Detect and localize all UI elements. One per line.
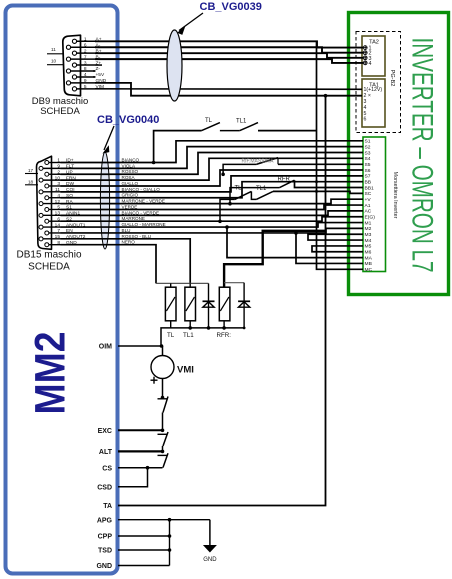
svg-text:TSD: TSD <box>98 548 112 555</box>
wire RIF.MASSIMA feed <box>221 164 256 176</box>
svg-text:14: 14 <box>55 222 61 228</box>
svg-text:TL: TL <box>205 118 213 124</box>
wire BIANCO to S1 <box>61 141 364 163</box>
switch TL1 (top) <box>236 119 258 131</box>
svg-text:CSD: CSD <box>97 485 112 492</box>
wire RFR coil feed (thick) <box>224 231 325 287</box>
wire A+ to TA2 pin 1 <box>95 41 363 47</box>
svg-text:3: 3 <box>57 181 60 187</box>
svg-text:MARRONE: MARRONE <box>122 216 145 221</box>
svg-text:APG: APG <box>97 518 113 525</box>
wire TL TL1 contacts feed <box>218 199 235 223</box>
svg-text:MARRONE - VERDE: MARRONE - VERDE <box>122 199 165 204</box>
svg-text:M4: M4 <box>365 238 372 244</box>
wire +5V stub <box>93 76 96 78</box>
svg-text:TL1: TL1 <box>256 186 267 192</box>
svg-text:2: 2 <box>84 48 87 54</box>
coil top bus RFR to D2 <box>224 282 244 284</box>
cable CB_VG0040 <box>97 114 159 249</box>
wire VIM to TA1 pin 1 <box>95 88 362 90</box>
switch TL (contact) <box>235 186 252 200</box>
wire ROSSO to S3 <box>61 152 364 174</box>
svg-text:TL: TL <box>235 186 243 192</box>
svg-text:VERDE: VERDE <box>122 204 138 209</box>
diode D1 <box>203 283 215 328</box>
coil bottom bus <box>161 326 246 346</box>
svg-text:VMI: VMI <box>177 365 194 376</box>
diode D2 <box>238 283 250 328</box>
svg-text:CB_VG0040: CB_VG0040 <box>97 114 159 126</box>
svg-text:GIALLO - MARRONE: GIALLO - MARRONE <box>122 222 166 227</box>
svg-text:MB: MB <box>365 261 372 267</box>
wire VERDE to A1 <box>61 204 364 209</box>
wire ROSA to S4 <box>61 158 364 180</box>
svg-text:15: 15 <box>55 234 61 240</box>
terminal block TA2 <box>362 36 385 76</box>
DB15 pin labels <box>55 158 86 246</box>
svg-text:ROSA: ROSA <box>122 175 136 180</box>
relay coil TL <box>165 283 176 339</box>
wire APG <box>97 518 210 525</box>
svg-text:6: 6 <box>364 117 367 123</box>
svg-text:18: 18 <box>28 179 34 184</box>
svg-text:VIOLA: VIOLA <box>122 163 136 168</box>
wire GRIGIO to BB <box>61 182 364 198</box>
svg-text:4: 4 <box>369 61 372 67</box>
svg-text:9: 9 <box>84 78 87 84</box>
INVERTER - OMRON L7 label <box>406 38 439 273</box>
wire B- to TA2 pin 4 <box>95 59 363 63</box>
terminal block TA1 <box>362 79 385 127</box>
svg-text:TA2: TA2 <box>369 40 379 46</box>
wire to ALT <box>162 446 164 451</box>
svg-text:4: 4 <box>84 72 87 78</box>
wire RFR feed <box>228 188 279 206</box>
wire GIALLO to S6 <box>61 170 364 186</box>
svg-text:8: 8 <box>84 66 87 72</box>
relay coil TL1 <box>183 283 196 339</box>
svg-text:TL1: TL1 <box>236 119 247 125</box>
svg-text:11: 11 <box>55 187 60 193</box>
wire TL1 to node V1 <box>258 130 317 132</box>
wire MARRONE - VERDE to +V <box>61 199 364 204</box>
svg-text:BIANCO - GIALLO: BIANCO - GIALLO <box>122 187 161 192</box>
svg-text:A1: A1 <box>365 203 371 209</box>
inverter box outline <box>349 13 449 295</box>
wire EXC <box>98 428 165 435</box>
svg-text:M6: M6 <box>365 250 372 256</box>
coil top bus <box>156 282 209 284</box>
svg-text:MM2: MM2 <box>27 332 75 415</box>
svg-text:PG-B2: PG-B2 <box>389 70 395 87</box>
svg-text:6: 6 <box>84 42 87 48</box>
svg-text:RFR: RFR <box>278 177 291 183</box>
wire BIANCO - GIALLO to S7 <box>61 176 364 192</box>
wire A- to TA2 pin 2 <box>95 47 363 52</box>
wire RFR to BB1 <box>295 180 364 187</box>
svg-text:+V: +V <box>365 197 372 203</box>
svg-text:S5: S5 <box>365 162 371 168</box>
svg-text:SC: SC <box>365 191 372 197</box>
svg-text:MA: MA <box>365 255 373 261</box>
wire GND to TA1 pin 2 <box>95 83 362 96</box>
svg-text:Z-: Z- <box>96 66 101 72</box>
svg-text:RFR:: RFR: <box>217 332 232 339</box>
switch RIF.MASSIMA <box>242 158 279 165</box>
wire CPP <box>98 534 172 541</box>
svg-text:BIANCO: BIANCO <box>122 158 140 163</box>
wire ALT <box>99 449 164 456</box>
svg-text:S1: S1 <box>365 139 371 145</box>
svg-text:Morsettiera Inverter: Morsettiera Inverter <box>392 172 398 219</box>
MM2 label <box>27 332 75 415</box>
svg-text:BIANCO - VERDE: BIANCO - VERDE <box>122 210 160 215</box>
wire GND <box>96 563 169 570</box>
svg-text:S2: S2 <box>365 144 371 150</box>
svg-text:M5: M5 <box>365 244 372 250</box>
wire M3 stub <box>308 234 363 240</box>
wire ground bus vertical <box>169 520 171 566</box>
svg-text:7: 7 <box>84 54 87 60</box>
svg-text:6: 6 <box>57 216 60 222</box>
svg-text:TL1: TL1 <box>183 332 194 339</box>
wire ROSSO - BLU to coil bus <box>61 234 191 284</box>
svg-text:MC: MC <box>365 267 373 273</box>
svg-text:S6: S6 <box>365 168 371 174</box>
svg-text:17: 17 <box>28 168 34 173</box>
PG-B2 enclosure <box>356 32 401 133</box>
connector DB9 maschio SCHEDA <box>32 35 95 117</box>
svg-text:GND: GND <box>96 563 112 570</box>
svg-text:EXC: EXC <box>98 428 112 435</box>
wire TA to TA1 pin 2 <box>118 94 327 506</box>
wire Z+ stub <box>95 64 102 66</box>
svg-text:3: 3 <box>84 60 87 66</box>
svg-text:CB_VG0039: CB_VG0039 <box>200 1 262 13</box>
svg-text:12: 12 <box>55 199 61 205</box>
svg-text:CPP: CPP <box>98 534 113 541</box>
svg-text:BB1: BB1 <box>365 185 375 191</box>
svg-text:5: 5 <box>84 84 87 90</box>
connector DB15 maschio SCHEDA <box>16 156 81 272</box>
switch TL (top) <box>202 118 220 131</box>
wire TSD <box>98 548 171 555</box>
svg-text:AC: AC <box>365 209 372 215</box>
svg-text:RIF.MASSIMA: RIF.MASSIMA <box>242 159 275 165</box>
svg-text:+5V: +5V <box>96 72 105 78</box>
svg-text:CS: CS <box>102 466 112 473</box>
svg-text:NERO: NERO <box>122 240 136 245</box>
svg-text:10: 10 <box>51 59 57 64</box>
svg-text:4: 4 <box>57 193 60 199</box>
svg-text:E(G): E(G) <box>365 215 376 221</box>
wire MARRONE to E(G) <box>61 216 364 221</box>
wire CS <box>102 466 162 473</box>
switch below VMI <box>158 397 169 413</box>
wire between TL and TL1 contacts <box>251 191 256 199</box>
label TA <box>103 503 112 510</box>
wire MB to mesh <box>294 231 363 263</box>
svg-text:S3: S3 <box>365 150 371 156</box>
ground <box>203 520 217 563</box>
cable CB_VG0039 <box>167 1 262 101</box>
svg-text:SCHEDA: SCHEDA <box>40 106 80 117</box>
wire node V1 vertical <box>315 41 363 269</box>
terminal strip Morsettiera Inverter <box>363 137 398 273</box>
wire CSD <box>97 468 147 492</box>
wire to switches TL TL1 <box>152 131 202 165</box>
svg-text:M3: M3 <box>365 232 372 238</box>
wire BIANCO - VERDE to AC <box>61 210 364 215</box>
svg-text:BB: BB <box>365 179 372 185</box>
svg-text:2: 2 <box>57 169 60 175</box>
wire MA to mesh <box>225 225 363 257</box>
svg-text:INVERTER – OMRON L7: INVERTER – OMRON L7 <box>406 38 439 273</box>
wire to EXC <box>162 413 164 431</box>
svg-text:13: 13 <box>55 211 61 217</box>
svg-text:TA: TA <box>103 503 112 510</box>
svg-text:BLU: BLU <box>122 228 131 233</box>
svg-text:ROSSO: ROSSO <box>122 169 139 174</box>
svg-text:ROSSO - BLU: ROSSO - BLU <box>122 234 152 239</box>
wire TL1 contact to SC <box>273 191 363 193</box>
wire VMI down <box>161 379 165 400</box>
svg-text:8: 8 <box>57 240 60 246</box>
svg-text:1: 1 <box>84 37 87 43</box>
wire B+ to TA2 pin 3 <box>95 53 363 58</box>
svg-text:1: 1 <box>57 158 60 164</box>
svg-text:GRIGIO: GRIGIO <box>122 193 139 198</box>
meter VMI <box>151 346 194 384</box>
svg-text:ALT: ALT <box>99 449 113 456</box>
switch below EXC <box>158 432 169 446</box>
wire M5 stub <box>312 246 363 252</box>
wire RIF.MASSIMA to S5 <box>278 158 363 165</box>
switch below ALT <box>158 453 169 467</box>
wire GIALLO - MARRONE to M1 <box>61 222 364 227</box>
svg-text:OIM: OIM <box>99 344 112 351</box>
svg-text:S4: S4 <box>365 156 371 162</box>
svg-text:11: 11 <box>51 47 56 52</box>
wire BLU to M2 <box>61 228 364 233</box>
MM2 board outline <box>6 6 118 574</box>
svg-text:DB15 maschio: DB15 maschio <box>16 250 81 261</box>
wire NERO to coil bus <box>61 240 157 284</box>
svg-text:7: 7 <box>57 228 60 234</box>
svg-text:M2: M2 <box>365 226 372 232</box>
wire VIOLA to S2 <box>61 147 364 169</box>
svg-text:TL: TL <box>167 332 175 339</box>
svg-text:S7: S7 <box>365 174 371 180</box>
wire to CS <box>162 467 164 469</box>
switch RFR <box>278 177 295 188</box>
svg-text:5: 5 <box>57 205 60 211</box>
DB9 pin labels <box>84 37 107 91</box>
wire OIM <box>99 344 164 351</box>
svg-text:SCHEDA: SCHEDA <box>28 262 70 273</box>
svg-text:10: 10 <box>55 175 61 181</box>
switch TL1 (contact) <box>256 186 273 199</box>
relay coil RFR <box>217 287 232 339</box>
svg-text:GND: GND <box>203 557 217 563</box>
svg-text:9: 9 <box>57 164 60 170</box>
svg-text:GIALLO: GIALLO <box>122 181 139 186</box>
svg-text:M1: M1 <box>365 220 372 226</box>
wire between TL and TL1 <box>220 130 240 132</box>
wire Z- stub <box>93 70 96 72</box>
